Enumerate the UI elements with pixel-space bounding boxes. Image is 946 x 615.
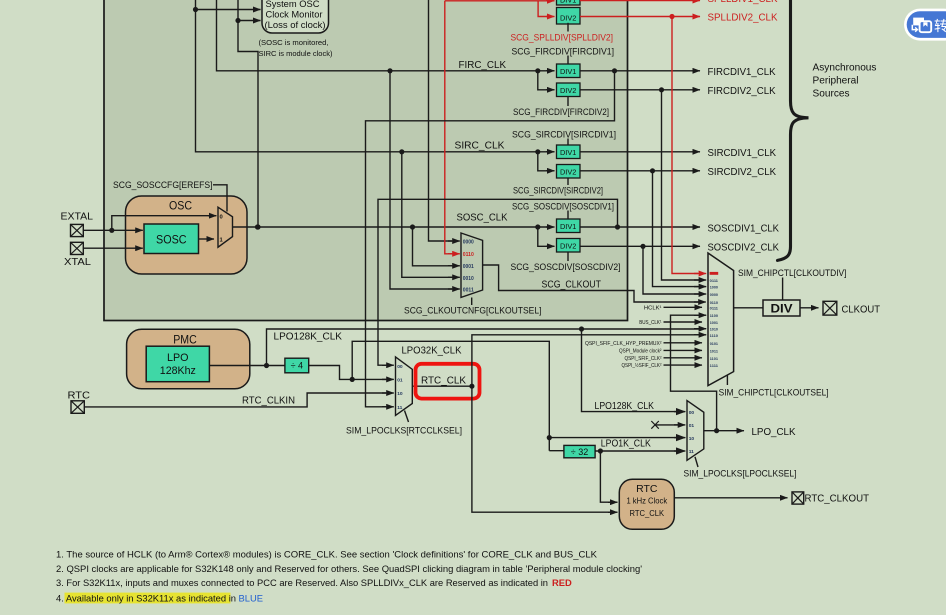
mux SCG_CLKOUTCNFG — [461, 233, 483, 297]
svg-text:CLKOUT: CLKOUT — [842, 304, 881, 315]
label SPLLDIV2_CLK — [708, 13, 778, 24]
pointer EREFS to mux — [213, 185, 227, 212]
wire LPO128K to LPOCLKSEL — [582, 329, 686, 412]
wire LPO128K_CLK — [267, 326, 707, 365]
svg-text:SOSCDIV2_CLK: SOSCDIV2_CLK — [708, 243, 780, 254]
svg-text:LPO1K_CLK: LPO1K_CLK — [601, 439, 651, 450]
svg-text:1110: 1110 — [710, 333, 718, 338]
label SCG_SPLLDIV[SPLLDIV2] — [511, 32, 614, 43]
svg-text:SCG_SOSCDIV[SOSCDIV1]: SCG_SOSCDIV[SOSCDIV1] — [512, 200, 614, 211]
wire SIRCDIV2 tap to CLKOUTSEL — [653, 171, 707, 287]
SCG module boundary box — [104, 0, 628, 321]
svg-text:0110: 0110 — [710, 300, 718, 305]
svg-text:0111: 0111 — [710, 305, 719, 310]
mux input 0110 red wire — [445, 1, 460, 254]
svg-text:SIM_CHIPCTL[CLKOUTDIV]: SIM_CHIPCTL[CLKOUTDIV] — [738, 267, 847, 278]
svg-text:RTC_CLKIN: RTC_CLKIN — [242, 396, 295, 407]
mux input 0000 label — [463, 240, 474, 246]
svg-text:SIM_LPOCLKS[RTCCLKSEL]: SIM_LPOCLKS[RTCCLKSEL] — [346, 424, 462, 435]
wire FIRCDIV1_CLK out — [580, 68, 700, 73]
label SCG_CLKOUT — [542, 280, 602, 291]
svg-text:0001: 0001 — [463, 264, 474, 270]
pointer CLKOUTSEL label — [726, 375, 728, 385]
svg-text:DIV1: DIV1 — [560, 222, 576, 231]
label QSPI_SFIF_CLK input — [625, 356, 703, 362]
pointer SPLLDIV2 label — [567, 23, 569, 32]
label QSPI_halfSFIF_CLK input — [622, 362, 703, 369]
divider SPLLDIV1 (cut at top) — [557, 0, 581, 5]
divider SOSCDIV2 — [557, 239, 581, 253]
svg-text:RTC_CLK: RTC_CLK — [630, 508, 665, 518]
svg-text:0101: 0101 — [710, 341, 719, 346]
mux input 0000 wire — [429, 0, 460, 241]
svg-text:SIRC_CLK: SIRC_CLK — [455, 141, 505, 152]
wire to div32 — [549, 438, 564, 451]
svg-text:DIV2: DIV2 — [560, 13, 576, 22]
svg-text:SOSC_CLK: SOSC_CLK — [457, 212, 508, 223]
mux SIM_LPOCLKS[LPOCLKSEL] — [687, 401, 704, 461]
mux input 0011 label — [463, 288, 474, 294]
svg-text:QSPI_SFIF_CLK²: QSPI_SFIF_CLK² — [625, 356, 662, 362]
label LPO1K_CLK — [601, 439, 651, 450]
wire SIRC_CLK — [196, 0, 555, 171]
label OSC — [169, 199, 192, 213]
label RTC_CLKOUT — [805, 494, 870, 505]
svg-text:BUS_CLK¹: BUS_CLK¹ — [639, 320, 661, 326]
pad RTC_CLKOUT — [792, 492, 804, 504]
wire SIRCDIV1_CLK out — [580, 151, 700, 153]
svg-text:DIV2: DIV2 — [560, 86, 576, 95]
svg-text:SCG_CLKOUT: SCG_CLKOUT — [542, 280, 602, 291]
svg-text:1 kHz Clock: 1 kHz Clock — [626, 496, 668, 505]
label PMC — [173, 332, 197, 346]
wire XTAL to SOSC — [83, 247, 143, 249]
wire SOSCDIV1 tap to RTCCLKSEL — [378, 199, 618, 365]
PMC block box — [127, 329, 250, 389]
svg-text:BLUE: BLUE — [239, 593, 264, 604]
wire RTC_CLKIN — [84, 393, 394, 407]
wire SOSCDIV2 tap to CLKOUTSEL — [643, 246, 706, 294]
pad CLKOUT — [823, 301, 837, 315]
svg-text:11: 11 — [397, 405, 402, 411]
svg-text:DIV1: DIV1 — [560, 148, 576, 157]
svg-text:RTC: RTC — [636, 484, 657, 495]
pointer CLKOUTCNFG label — [471, 298, 473, 306]
mux input 0001 wire from SOSC — [413, 227, 460, 266]
pointer RTCCLKSEL label — [405, 411, 409, 423]
pad EXTAL — [71, 224, 84, 236]
svg-text:FIRCDIV1_CLK: FIRCDIV1_CLK — [708, 67, 776, 78]
svg-text:LPO128K_CLK: LPO128K_CLK — [274, 332, 343, 343]
svg-text:Sources: Sources — [813, 88, 850, 99]
label LPO128K_CLK — [274, 332, 343, 343]
svg-text:DIV1: DIV1 — [560, 0, 576, 5]
svg-text:Clock Monitor: Clock Monitor — [266, 10, 323, 20]
svg-text:PMC: PMC — [173, 332, 197, 346]
svg-text:EXTAL: EXTAL — [61, 212, 94, 223]
wire LPO_CLK out — [704, 428, 744, 433]
mux input 0001 label — [463, 264, 474, 270]
svg-text:3. For S32K11x, inputs and mux: 3. For S32K11x, inputs and muxes connect… — [56, 577, 548, 588]
wire SPLLDIV2 red tap to CLKOUTSEL — [672, 17, 706, 274]
divider FIRCDIV1 — [557, 64, 581, 78]
label SIRCDIV2_CLK — [708, 167, 777, 178]
label SIM_LPOCLKS[RTCCLKSEL] — [346, 424, 462, 435]
svg-text:0: 0 — [220, 215, 223, 221]
translate button overlay — [904, 9, 946, 41]
svg-text:LPO: LPO — [167, 352, 189, 364]
svg-text:System OSC: System OSC — [266, 0, 320, 9]
label HCLK input — [644, 306, 702, 312]
label SCG_SIRCDIV[SIRCDIV1] — [512, 128, 616, 139]
pointer SIRCDIV2 label — [567, 178, 569, 185]
label SCG_FIRCDIV[FIRCDIV1] — [512, 46, 615, 57]
label RTC — [68, 391, 91, 402]
svg-text:0110: 0110 — [463, 252, 474, 258]
svg-text:11: 11 — [689, 449, 694, 455]
svg-text:Peripheral: Peripheral — [813, 75, 859, 86]
svg-text:DIV2: DIV2 — [560, 168, 576, 177]
RTC module box — [619, 479, 674, 529]
divider SOSCDIV1 — [557, 219, 581, 233]
svg-text:SOSCDIV1_CLK: SOSCDIV1_CLK — [708, 223, 780, 234]
svg-text:SIRCDIV2_CLK: SIRCDIV2_CLK — [708, 167, 777, 178]
label SCG_CLKOUTCNFG[CLKOUTSEL] — [404, 304, 542, 315]
oscillator LPO 128Khz box — [146, 346, 209, 382]
wire FIRCDIV2 tap to CLKOUTSEL — [662, 90, 707, 280]
wire mux to DIV — [734, 307, 763, 309]
svg-text:(Loss of clock): (Loss of clock) — [265, 20, 326, 30]
label asynchronous peripheral sources — [813, 62, 877, 99]
svg-text:0011: 0011 — [463, 288, 474, 294]
label SCG_SOSCDIV[SOSCDIV2] — [511, 261, 621, 272]
svg-text:SIM_LPOCLKS[LPOCLKSEL]: SIM_LPOCLKS[LPOCLKSEL] — [684, 468, 797, 479]
svg-text:SPLLDIV1_CLK: SPLLDIV1_CLK — [708, 0, 778, 5]
mux CLKOUTSEL input code labels — [710, 272, 719, 368]
label RTC_CLK — [421, 376, 466, 387]
svg-text:SIM_CHIPCTL[CLKOUTSEL]: SIM_CHIPCTL[CLKOUTSEL] — [719, 387, 829, 398]
svg-text:SCG_SOSCCFG[EREFS]: SCG_SOSCCFG[EREFS] — [113, 179, 213, 190]
mux SIM_CHIPCTL[CLKOUTSEL] — [708, 253, 734, 386]
footnote 3 — [56, 577, 572, 588]
wire RTC_CLK to CLKOUTSEL — [472, 335, 706, 386]
footnote 1 — [56, 548, 598, 559]
wire SOSCDIV2_CLK out — [580, 244, 700, 249]
wire SPLL_CLK red top — [445, 1, 555, 17]
label SCG_SOSCCFG[EREFS] — [113, 179, 213, 190]
label FIRCDIV1_CLK — [708, 67, 776, 78]
svg-text:OSC: OSC — [169, 199, 192, 213]
svg-text:RED: RED — [552, 577, 572, 588]
label EXTAL — [61, 212, 94, 223]
mux input 0011 wire from FIRC — [390, 71, 460, 289]
mux OSC bypass — [218, 207, 233, 247]
svg-text:Asynchronous: Asynchronous — [813, 62, 877, 73]
oscillator SOSC box — [144, 224, 199, 254]
svg-text:DIV1: DIV1 — [560, 67, 576, 76]
svg-text:FIRCDIV2_CLK: FIRCDIV2_CLK — [708, 86, 776, 97]
label FIRCDIV2_CLK — [708, 86, 776, 97]
divider FIRCDIV2 — [557, 83, 581, 97]
pointer FIRCDIV1 label — [567, 56, 569, 64]
svg-text:转: 转 — [934, 18, 946, 34]
mux SIM_LPOCLKS[RTCCLKSEL] — [396, 357, 413, 416]
svg-text:SPLLDIV2_CLK: SPLLDIV2_CLK — [708, 13, 778, 24]
svg-text:DIV2: DIV2 — [560, 242, 576, 251]
footnote 4 highlight — [65, 593, 231, 604]
wire SOSC to mux — [199, 238, 215, 240]
wire SOSC monitor tap path — [238, 0, 261, 230]
svg-text:0111: 0111 — [710, 278, 719, 283]
label SOSC_CLK — [457, 212, 508, 223]
svg-text:00: 00 — [689, 410, 695, 416]
svg-text:1100: 1100 — [710, 313, 718, 318]
divider SIRCDIV2 — [557, 165, 581, 179]
svg-text:SCG_SIRCDIV[SIRCDIV1]: SCG_SIRCDIV[SIRCDIV1] — [512, 128, 616, 139]
monitor note text — [259, 38, 333, 58]
wire monitor input from SIRC — [193, 7, 261, 12]
wire EXTAL bypass to mux — [112, 216, 217, 231]
svg-text:DIV: DIV — [771, 303, 793, 315]
label LPO32K_CLK — [402, 345, 462, 356]
label LPO128K_CLK second — [595, 401, 655, 412]
label SCG_FIRCDIV[FIRCDIV2] — [513, 106, 609, 117]
wire RTC_CLKOUT — [674, 497, 787, 499]
svg-text:2. QSPI clocks are applicable: 2. QSPI clocks are applicable for S32K14… — [56, 563, 642, 574]
pointer SOSCDIV1 label — [567, 211, 569, 220]
svg-text:0000: 0000 — [463, 240, 474, 246]
svg-text:LPO128K_CLK: LPO128K_CLK — [595, 401, 655, 412]
divider SIRCDIV1 — [557, 145, 581, 159]
svg-text:SOSC: SOSC — [156, 233, 187, 247]
footnote 4 — [56, 593, 263, 604]
OSC block box — [126, 196, 248, 274]
svg-text:1101: 1101 — [710, 356, 719, 361]
svg-text:SIRC is module clock): SIRC is module clock) — [259, 49, 333, 58]
wire div4 to RTCCLKSEL input 01 — [309, 366, 394, 383]
wire monitor input from SOSC tap — [235, 18, 260, 23]
svg-text:1010: 1010 — [710, 327, 718, 332]
wire FIRCDIV1 tap to RTCCLKSEL — [366, 71, 615, 407]
pointer SIRCDIV1 label — [567, 139, 569, 146]
svg-text:10: 10 — [397, 391, 403, 397]
label RTC_CLKIN — [242, 396, 295, 407]
wire SPLLDIV2_CLK out — [580, 14, 700, 19]
pointer FIRCDIV2 label — [567, 97, 569, 107]
svg-text:1011: 1011 — [710, 348, 719, 353]
svg-text:SCG_FIRCDIV[FIRCDIV1]: SCG_FIRCDIV[FIRCDIV1] — [512, 46, 615, 57]
wire crossed input 01 — [651, 421, 685, 429]
label SIRCDIV1_CLK — [708, 148, 777, 159]
svg-text:4. Available only in S32K11x a: 4. Available only in S32K11x as indicate… — [56, 593, 236, 604]
label CLKOUT — [842, 304, 881, 315]
svg-text:÷ 4: ÷ 4 — [291, 360, 303, 370]
svg-text:01: 01 — [397, 378, 403, 384]
divider DIV box — [763, 300, 800, 316]
wire EXTAL to SOSC — [83, 228, 143, 233]
pointer CLKOUTDIV to DIV — [782, 278, 784, 301]
pointer LPOCLKSEL label — [695, 457, 698, 467]
wire FIRCDIV2_CLK out — [580, 87, 700, 92]
pad RTC — [71, 401, 84, 414]
wire LPO32K_CLK — [352, 341, 685, 440]
label SIM_LPOCLKS[LPOCLKSEL] — [684, 468, 797, 479]
svg-text:SCG_FIRCDIV[FIRCDIV2]: SCG_FIRCDIV[FIRCDIV2] — [513, 106, 609, 117]
label SIRC_CLK — [455, 141, 505, 152]
wire DIV to CLKOUT pad — [800, 307, 819, 309]
svg-text:FIRC_CLK: FIRC_CLK — [459, 60, 507, 71]
label LPO_CLK — [752, 427, 796, 438]
svg-text:01: 01 — [689, 423, 695, 429]
label FIRC_CLK — [459, 60, 507, 71]
divider div4 box — [285, 358, 309, 373]
wire SOSC_CLK — [233, 224, 555, 246]
label SIM_CHIPCTL[CLKOUTDIV] — [738, 267, 847, 278]
svg-text:SCG_CLKOUTCNFG[CLKOUTSEL]: SCG_CLKOUTCNFG[CLKOUTSEL] — [404, 304, 542, 315]
svg-text:QSPI_½SFIF_CLK²: QSPI_½SFIF_CLK² — [622, 362, 662, 369]
label QSPI_Module clock input — [619, 349, 702, 355]
pointer SOSCDIV2 label — [567, 252, 569, 261]
svg-text:LPO_CLK: LPO_CLK — [752, 427, 796, 438]
label SOSCDIV2_CLK — [708, 243, 780, 254]
svg-text:0000: 0000 — [710, 292, 718, 297]
svg-text:1001: 1001 — [710, 320, 719, 325]
svg-text:RTC: RTC — [68, 391, 91, 402]
wire SIRCDIV2_CLK out — [580, 168, 700, 173]
svg-text:SCG_SOSCDIV[SOSCDIV2]: SCG_SOSCDIV[SOSCDIV2] — [511, 261, 621, 272]
svg-text:RTC_CLK: RTC_CLK — [421, 376, 466, 387]
label SIM_CHIPCTL[CLKOUTSEL] — [719, 387, 829, 398]
svg-text:00: 00 — [397, 364, 403, 370]
svg-text:SCG_SPLLDIV[SPLLDIV2]: SCG_SPLLDIV[SPLLDIV2] — [511, 32, 614, 43]
mux input 0110 label — [463, 252, 474, 258]
svg-text:128Khz: 128Khz — [160, 365, 196, 377]
svg-text:1111: 1111 — [710, 363, 719, 368]
wire FIRC_CLK — [217, 0, 555, 90]
svg-text:RTC_CLKOUT: RTC_CLKOUT — [805, 494, 870, 505]
label XTAL — [64, 257, 91, 268]
wire SCG_CLKOUT — [483, 265, 706, 302]
wire LPO output — [209, 363, 285, 368]
wire SOSCDIV1_CLK out — [580, 224, 700, 229]
svg-text:HCLK¹: HCLK¹ — [644, 306, 662, 312]
wire LPO_CLK to CLKOUTSEL — [671, 315, 717, 431]
svg-text:QSPI_Module clock²: QSPI_Module clock² — [619, 349, 662, 355]
svg-text:÷ 32: ÷ 32 — [571, 447, 588, 457]
mux LPOCLKSEL code labels — [689, 410, 695, 455]
system OSC clock monitor box — [262, 0, 329, 33]
label SCG_SIRCDIV[SIRCDIV2] — [513, 184, 603, 195]
divider SPLLDIV2 — [557, 8, 581, 25]
svg-text:SIRCDIV1_CLK: SIRCDIV1_CLK — [708, 148, 777, 159]
wire LPO1K_CLK — [595, 448, 685, 453]
wire RTC_CLK out — [412, 384, 474, 389]
mux RTCCLKSEL code labels — [397, 364, 403, 411]
mux input 0010 label — [463, 276, 474, 282]
highlight box RTC_CLK — [416, 364, 480, 399]
svg-text:1000: 1000 — [710, 285, 718, 290]
svg-text:0010: 0010 — [463, 276, 474, 282]
label SCG_SOSCDIV[SOSCDIV1] — [512, 200, 614, 211]
svg-text:1. The source of HCLK (to Arm®: 1. The source of HCLK (to Arm® Cortex® m… — [56, 548, 598, 559]
mux input 0010 wire from SIRC — [399, 149, 460, 277]
label SPLLDIV1_CLK — [708, 0, 778, 5]
svg-text:10: 10 — [689, 436, 695, 442]
divider div32 box — [564, 445, 595, 457]
svg-text:XTAL: XTAL — [64, 257, 91, 268]
footnote 2 — [56, 563, 642, 574]
label QSPI_SFIF_CLK_HYP_PREMUX input — [585, 341, 702, 347]
wire 1kHz to RTC — [600, 451, 617, 502]
brace asynchronous sources — [778, 0, 809, 260]
svg-text:QSPI_SFIF_CLK_HYP_PREMUX²: QSPI_SFIF_CLK_HYP_PREMUX² — [585, 341, 662, 347]
pad XTAL — [71, 242, 84, 254]
wire SPLLDIV1_CLK out — [580, 0, 700, 2]
wire RTC_CLK to RTC module — [472, 386, 618, 512]
label SOSCDIV1_CLK — [708, 223, 780, 234]
svg-text:LPO32K_CLK: LPO32K_CLK — [402, 345, 462, 356]
svg-text:(SOSC is monitored,: (SOSC is monitored, — [259, 38, 329, 47]
svg-text:SCG_SIRCDIV[SIRCDIV2]: SCG_SIRCDIV[SIRCDIV2] — [513, 184, 603, 195]
label BUS_CLK input — [639, 320, 702, 326]
